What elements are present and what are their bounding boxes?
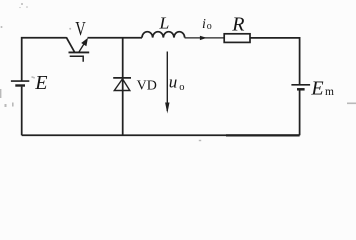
- svg-text:VD: VD: [137, 79, 157, 94]
- svg-text:R: R: [231, 14, 244, 36]
- svg-text:E: E: [34, 72, 47, 94]
- svg-text:i: i: [202, 17, 206, 32]
- svg-text:o: o: [207, 21, 212, 32]
- svg-text:E: E: [310, 78, 323, 100]
- svg-text:L: L: [158, 14, 169, 33]
- svg-text:m: m: [325, 86, 334, 98]
- svg-text:o: o: [179, 82, 184, 93]
- svg-text:V: V: [75, 18, 86, 40]
- svg-text:u: u: [169, 72, 178, 91]
